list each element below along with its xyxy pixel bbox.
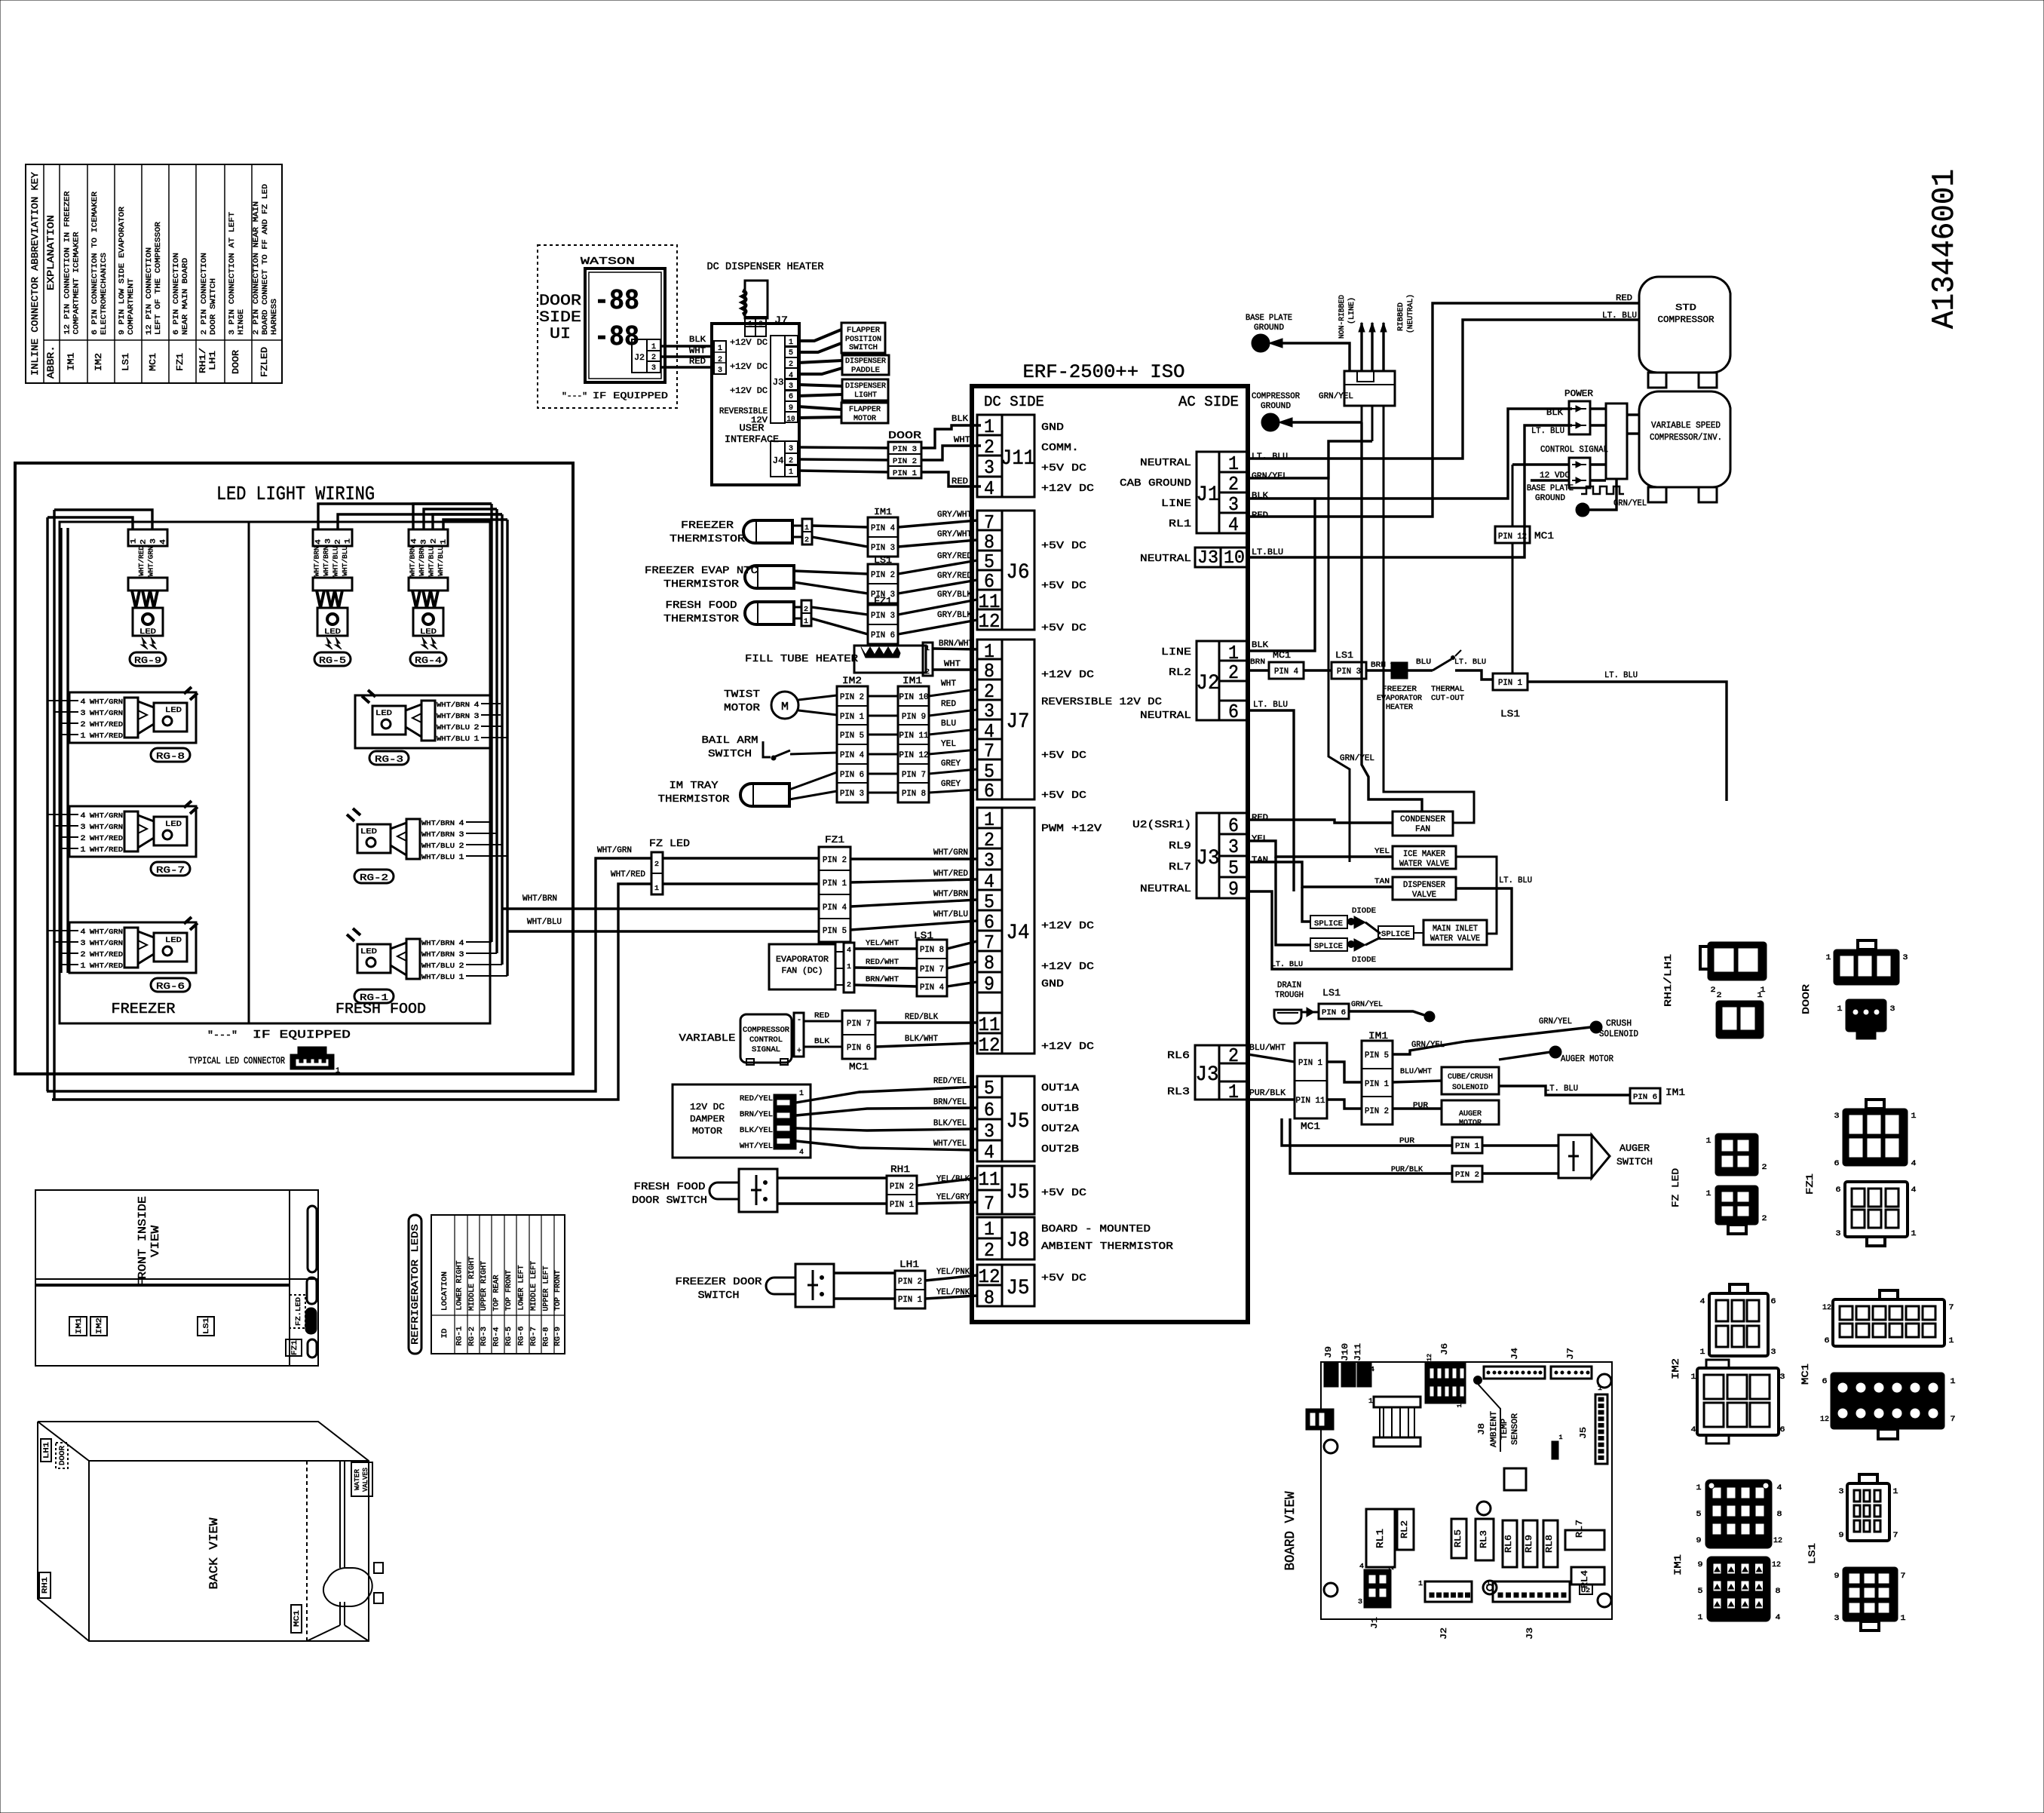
svg-text:IM1: IM1 <box>1672 1554 1684 1575</box>
svg-text:GRY/WHT: GRY/WHT <box>937 511 972 520</box>
svg-text:BACK VIEW: BACK VIEW <box>207 1517 221 1589</box>
wire J2 line BLK <box>1248 498 1315 651</box>
svg-text:RL6: RL6 <box>1503 1535 1514 1553</box>
svg-text:MC1: MC1 <box>1273 650 1291 661</box>
svg-text:SWITCH: SWITCH <box>708 748 752 760</box>
svg-text:BRN/WHT: BRN/WHT <box>866 975 899 984</box>
svg-text:LED LIGHT WIRING: LED LIGHT WIRING <box>216 483 375 505</box>
freezer door switch <box>676 1264 896 1307</box>
svg-text:J11: J11 <box>1354 1343 1363 1361</box>
svg-text:2: 2 <box>459 962 464 971</box>
board screw holes <box>1324 1374 1611 1607</box>
svg-text:WHT/BLU: WHT/BLU <box>427 546 435 576</box>
svg-text:1: 1 <box>799 1090 804 1098</box>
svg-text:PIN 6: PIN 6 <box>1633 1094 1657 1102</box>
inline connector LS1 thermistor pins <box>868 552 977 603</box>
svg-text:12: 12 <box>979 610 1001 633</box>
svg-text:3 PIN CONNECTION AT LEFT: 3 PIN CONNECTION AT LEFT <box>228 212 237 335</box>
svg-text:PIN 5: PIN 5 <box>823 927 847 936</box>
svg-text:WHT/BLU: WHT/BLU <box>421 854 455 861</box>
svg-text:+12V DC: +12V DC <box>730 339 768 348</box>
svg-text:WHT/BLU: WHT/BLU <box>342 546 349 576</box>
svg-text:CONTROL SIGNAL: CONTROL SIGNAL <box>1540 444 1608 455</box>
svg-text:RH1/LH1: RH1/LH1 <box>1662 954 1674 1007</box>
svg-text:RL5: RL5 <box>1453 1529 1463 1548</box>
svg-text:3: 3 <box>789 382 793 391</box>
svg-text:RG-7: RG-7 <box>156 865 185 876</box>
svg-text:M: M <box>781 701 789 713</box>
auger motor terminal <box>1499 1047 1613 1064</box>
svg-text:ID: ID <box>441 1329 449 1339</box>
svg-text:WATER VALVE: WATER VALVE <box>1430 934 1480 943</box>
svg-text:7: 7 <box>1951 1416 1956 1424</box>
wire J2 neutral LT BLU <box>1248 710 1294 891</box>
svg-text:J1: J1 <box>1371 1617 1380 1629</box>
IM tray thermistor <box>658 772 838 806</box>
svg-text:J5: J5 <box>1007 1277 1030 1300</box>
svg-text:1: 1 <box>130 538 139 544</box>
svg-text:PIN 2: PIN 2 <box>1455 1171 1479 1180</box>
LED wiring right bus wires <box>318 504 507 976</box>
UI J2 connector <box>632 339 660 373</box>
IM2 inline connector table <box>837 675 868 802</box>
svg-text:J2: J2 <box>1197 672 1220 695</box>
svg-text:OUT1B: OUT1B <box>1041 1103 1079 1115</box>
gallery LS1 connectors <box>1807 1474 1906 1630</box>
svg-text:PWM +12V: PWM +12V <box>1041 823 1102 835</box>
svg-text:FILL TUBE HEATER: FILL TUBE HEATER <box>745 653 859 665</box>
back view 3d box <box>38 1422 383 1641</box>
svg-text:FLAPPER: FLAPPER <box>847 327 880 335</box>
svg-text:GREY: GREY <box>941 759 961 768</box>
svg-text:GRY/BLK: GRY/BLK <box>937 591 972 600</box>
svg-text:BLK: BLK <box>1546 409 1563 418</box>
svg-text:SPLICE: SPLICE <box>1314 943 1343 951</box>
svg-text:+12V DC: +12V DC <box>730 387 768 396</box>
svg-text:7: 7 <box>1949 1304 1954 1312</box>
svg-text:BLK/WHT: BLK/WHT <box>905 1035 938 1044</box>
svg-text:5: 5 <box>1696 1511 1702 1519</box>
gallery FZ LED connectors <box>1670 1134 1767 1234</box>
svg-text:4: 4 <box>474 701 480 710</box>
svg-text:+5V DC: +5V DC <box>1041 462 1086 474</box>
svg-text:J5: J5 <box>1580 1427 1589 1439</box>
board connector J5 <box>1580 1385 1607 1464</box>
svg-text:FZ1: FZ1 <box>1804 1173 1816 1195</box>
svg-text:2: 2 <box>81 835 86 843</box>
svg-text:2: 2 <box>925 668 930 676</box>
svg-text:PIN 5: PIN 5 <box>1365 1051 1389 1060</box>
board relays <box>1366 1509 1604 1594</box>
svg-text:4: 4 <box>1370 1366 1374 1373</box>
svg-text:CUT-OUT: CUT-OUT <box>1431 695 1464 703</box>
svg-text:DOOR: DOOR <box>1800 984 1812 1014</box>
12V DC damper motor <box>673 1084 811 1158</box>
svg-text:LED: LED <box>360 948 377 956</box>
svg-text:FREEZER: FREEZER <box>681 520 734 532</box>
svg-text:IF EQUIPPED: IF EQUIPPED <box>593 391 668 401</box>
svg-text:LT. BLU: LT. BLU <box>1454 658 1486 667</box>
front inside view box <box>35 1190 318 1366</box>
svg-text:12V: 12V <box>751 416 768 425</box>
svg-text:MOTOR: MOTOR <box>1459 1119 1482 1127</box>
svg-text:HINGE: HINGE <box>237 309 246 335</box>
svg-text:DOOR: DOOR <box>888 430 922 442</box>
svg-text:+12V DC: +12V DC <box>730 363 768 372</box>
board connectors J9 J10 J11 <box>1324 1343 1374 1405</box>
svg-text:2: 2 <box>1717 992 1722 1000</box>
svg-text:WHT/BRN: WHT/BRN <box>409 546 416 576</box>
svg-text:VARIABLE SPEED: VARIABLE SPEED <box>1651 420 1721 431</box>
svg-text:1: 1 <box>1700 1348 1705 1357</box>
connector J8 <box>977 1217 1174 1262</box>
svg-text:RH1/: RH1/ <box>199 348 208 373</box>
svg-text:PIN 3: PIN 3 <box>893 446 917 454</box>
svg-text:WHT/RED: WHT/RED <box>611 870 645 879</box>
svg-text:RG-5: RG-5 <box>505 1327 513 1346</box>
svg-text:GROUND: GROUND <box>1535 494 1565 503</box>
svg-text:4: 4 <box>984 477 994 500</box>
base plate ground top-left <box>1246 314 1350 371</box>
svg-text:10: 10 <box>787 416 795 424</box>
svg-text:WHT/GRN: WHT/GRN <box>90 698 123 706</box>
svg-text:2: 2 <box>847 981 851 989</box>
typical LED connector icon <box>188 1047 340 1075</box>
svg-text:5: 5 <box>1698 1588 1703 1596</box>
svg-text:RH1: RH1 <box>890 1164 910 1175</box>
svg-text:CAB GROUND: CAB GROUND <box>1120 477 1191 489</box>
svg-text:VALVES: VALVES <box>362 1468 369 1492</box>
freezer thermistor <box>670 519 868 547</box>
svg-text:4: 4 <box>1776 1614 1781 1622</box>
svg-text:PIN 2: PIN 2 <box>871 571 895 580</box>
svg-text:PIN 2: PIN 2 <box>840 693 864 702</box>
WATSON door-side UI dashed box <box>538 245 677 408</box>
svg-text:4: 4 <box>1911 1186 1917 1195</box>
inverter control signal connector <box>1512 444 1624 494</box>
svg-text:YEL: YEL <box>1374 848 1390 856</box>
inline connector LH1 door switch pins <box>895 1259 977 1308</box>
svg-text:COMPRESSOR: COMPRESSOR <box>1252 392 1300 401</box>
svg-text:EXPLANATION: EXPLANATION <box>45 215 57 290</box>
svg-text:WHT/RED: WHT/RED <box>138 546 146 576</box>
svg-text:LEFT OF THE COMPRESSOR: LEFT OF THE COMPRESSOR <box>154 221 163 335</box>
svg-text:RL6: RL6 <box>1167 1050 1190 1062</box>
svg-text:MAIN INLET: MAIN INLET <box>1433 925 1478 934</box>
wires IM2-IM1-J7 <box>868 679 977 793</box>
drain trough heater <box>1274 981 1434 1023</box>
svg-text:WHT/BLU: WHT/BLU <box>933 910 968 919</box>
svg-text:BOARD VIEW: BOARD VIEW <box>1283 1491 1298 1570</box>
power cord labels <box>1338 294 1415 339</box>
svg-text:1: 1 <box>1598 1385 1602 1392</box>
board heatsink assembly <box>1374 1397 1420 1446</box>
svg-text:J7: J7 <box>1567 1348 1576 1360</box>
svg-text:2: 2 <box>654 860 659 868</box>
svg-text:J5: J5 <box>1007 1110 1030 1134</box>
svg-text:6: 6 <box>1836 1186 1841 1195</box>
svg-text:+5V DC: +5V DC <box>1041 790 1086 802</box>
dispenser valve <box>1248 862 1532 900</box>
svg-text:6: 6 <box>1825 1337 1830 1345</box>
svg-text:PUR: PUR <box>1399 1137 1414 1146</box>
svg-text:WHT/BLU: WHT/BLU <box>437 735 470 743</box>
svg-text:LS1: LS1 <box>203 1318 211 1334</box>
svg-text:WHT/BRN: WHT/BRN <box>437 713 470 720</box>
svg-text:9: 9 <box>1698 1561 1703 1569</box>
svg-text:3: 3 <box>421 539 429 545</box>
svg-text:+12V DC: +12V DC <box>1041 961 1094 973</box>
svg-text:FZ1: FZ1 <box>825 834 844 845</box>
LED wiring inner box freezer/fresh-food <box>60 522 490 1023</box>
svg-text:2: 2 <box>759 321 763 327</box>
board connector J3 <box>1486 1580 1570 1640</box>
svg-text:PIN 2: PIN 2 <box>893 458 917 466</box>
svg-text:LT. BLU: LT. BLU <box>1252 452 1288 462</box>
svg-text:BRN/WHT: BRN/WHT <box>939 640 973 649</box>
svg-text:10: 10 <box>1224 548 1245 569</box>
svg-text:BRN/YEL: BRN/YEL <box>933 1098 967 1107</box>
LED module RG-5 <box>313 529 353 666</box>
svg-text:RL9: RL9 <box>1169 840 1191 852</box>
svg-text:SPLICE: SPLICE <box>1381 931 1410 939</box>
svg-text:WHT/BRN: WHT/BRN <box>313 546 320 576</box>
svg-text:1: 1 <box>1696 1484 1702 1492</box>
svg-text:RL3: RL3 <box>1167 1086 1190 1098</box>
svg-text:RG-5: RG-5 <box>319 655 346 666</box>
svg-text:SPLICE: SPLICE <box>1314 920 1343 928</box>
svg-text:GRY/WHT: GRY/WHT <box>937 530 972 539</box>
svg-text:8: 8 <box>984 1287 994 1309</box>
gallery IM2 connectors <box>1670 1284 1785 1443</box>
auger switch chain <box>1282 1118 1653 1182</box>
svg-text:J2: J2 <box>634 354 645 363</box>
svg-text:3: 3 <box>1836 1230 1841 1238</box>
svg-text:RG-3: RG-3 <box>375 754 403 765</box>
svg-text:CRUSH: CRUSH <box>1606 1018 1632 1029</box>
svg-text:GRY/BLK: GRY/BLK <box>937 611 972 620</box>
svg-text:GRN/YEL: GRN/YEL <box>1319 392 1353 401</box>
svg-text:TEMP: TEMP <box>1500 1419 1509 1440</box>
svg-text:J10: J10 <box>1341 1343 1350 1361</box>
svg-text:WATSON: WATSON <box>581 256 635 268</box>
svg-text:WHT/BRN: WHT/BRN <box>421 951 455 959</box>
svg-text:LED: LED <box>165 937 182 945</box>
svg-text:GREY: GREY <box>941 780 961 789</box>
svg-text:RG-4: RG-4 <box>415 655 442 666</box>
svg-text:1: 1 <box>81 846 86 854</box>
svg-text:RED: RED <box>689 357 706 367</box>
svg-text:9: 9 <box>1834 1572 1840 1581</box>
svg-text:3: 3 <box>1839 1488 1844 1496</box>
user interface box <box>712 324 799 485</box>
svg-text:4: 4 <box>160 539 168 545</box>
svg-text:2: 2 <box>1388 1566 1396 1570</box>
power cord wires <box>1359 323 1387 371</box>
variable speed compressor <box>1639 391 1730 502</box>
svg-text:COMM.: COMM. <box>1041 442 1079 454</box>
svg-text:LED: LED <box>360 828 377 836</box>
svg-text:OUT2A: OUT2A <box>1041 1123 1080 1135</box>
svg-text:LED: LED <box>375 710 392 718</box>
svg-text:BRN: BRN <box>1250 658 1265 667</box>
svg-text:J6: J6 <box>1441 1343 1450 1355</box>
svg-text:WHT/RED: WHT/RED <box>90 951 123 959</box>
svg-text:FRESH FOOD: FRESH FOOD <box>666 600 737 612</box>
svg-text:+12V DC: +12V DC <box>1041 483 1094 495</box>
svg-text:MOTOR: MOTOR <box>853 415 876 423</box>
svg-text:1: 1 <box>749 321 752 327</box>
svg-text:2: 2 <box>1711 986 1716 995</box>
svg-text:WHT/BRN: WHT/BRN <box>421 940 455 947</box>
MC1 inline connector auger <box>1248 1043 1362 1132</box>
svg-text:1: 1 <box>789 468 793 477</box>
svg-text:BOARD - MOUNTED: BOARD - MOUNTED <box>1041 1223 1151 1235</box>
svg-text:RG-8: RG-8 <box>156 751 185 762</box>
svg-text:FREEZER: FREEZER <box>1382 686 1417 694</box>
svg-text:PIN 6: PIN 6 <box>1322 1009 1346 1017</box>
svg-text:6 PIN CONNECTION TO ICEMAKER: 6 PIN CONNECTION TO ICEMAKER <box>90 191 100 335</box>
svg-text:2: 2 <box>651 354 656 362</box>
evaporator fan <box>769 930 977 996</box>
svg-text:BLK/YEL: BLK/YEL <box>933 1119 967 1128</box>
DC dispenser heater <box>707 261 825 336</box>
IM1 inline connector auger <box>1362 1030 1465 1124</box>
svg-text:WHT/YEL: WHT/YEL <box>740 1142 773 1151</box>
svg-text:2: 2 <box>984 1239 994 1262</box>
svg-text:LT. BLU: LT. BLU <box>1253 701 1288 710</box>
svg-text:OUT1A: OUT1A <box>1041 1082 1080 1094</box>
svg-text:WHT/RED: WHT/RED <box>90 732 123 740</box>
svg-text:IM1: IM1 <box>66 353 77 371</box>
svg-text:DISPENSER: DISPENSER <box>845 357 886 366</box>
svg-text:3: 3 <box>718 367 722 375</box>
svg-text:BLU: BLU <box>941 719 956 729</box>
svg-text:GND: GND <box>1041 978 1064 990</box>
svg-text:1: 1 <box>336 1067 340 1075</box>
svg-text:WHT/BLU: WHT/BLU <box>421 974 455 981</box>
svg-text:FZ.LED: FZ.LED <box>295 1297 302 1326</box>
svg-text:PUR: PUR <box>1413 1102 1428 1110</box>
svg-text:1: 1 <box>1706 1137 1712 1146</box>
svg-text:RED/YEL: RED/YEL <box>933 1077 967 1086</box>
svg-text:2: 2 <box>1762 1215 1767 1223</box>
svg-text:4: 4 <box>984 1141 994 1164</box>
svg-text:SWITCH: SWITCH <box>849 344 878 352</box>
svg-text:RG-1: RG-1 <box>456 1327 464 1346</box>
svg-text:2: 2 <box>1762 1164 1767 1172</box>
svg-text:THERMISTOR: THERMISTOR <box>663 578 740 591</box>
UI input connector 1-2-3 <box>714 341 726 375</box>
svg-text:IF EQUIPPED: IF EQUIPPED <box>253 1029 351 1041</box>
svg-text:RED: RED <box>952 477 968 486</box>
svg-text:4: 4 <box>1691 1426 1696 1434</box>
UI display box <box>539 268 665 382</box>
svg-text:SWITCH: SWITCH <box>1617 1156 1653 1167</box>
svg-text:LS1: LS1 <box>1335 650 1353 661</box>
svg-text:FZ1: FZ1 <box>175 353 185 371</box>
svg-text:WHT: WHT <box>944 660 961 669</box>
svg-text:2: 2 <box>431 538 439 544</box>
svg-text:NON-RIBBED: NON-RIBBED <box>1338 295 1347 339</box>
svg-text:DOOR SWITCH: DOOR SWITCH <box>209 278 218 335</box>
svg-text:AMBIENT THERMISTOR: AMBIENT THERMISTOR <box>1041 1241 1174 1253</box>
condenser fan <box>1248 422 1474 836</box>
svg-text:LED: LED <box>420 628 437 637</box>
svg-text:+12V DC: +12V DC <box>1041 920 1094 932</box>
svg-text:6: 6 <box>984 780 994 802</box>
svg-text:1: 1 <box>1893 1488 1898 1496</box>
svg-text:BLK: BLK <box>814 1038 829 1046</box>
svg-text:3: 3 <box>789 445 793 453</box>
LED module RG-4 <box>409 529 449 666</box>
svg-text:J5: J5 <box>1007 1181 1030 1204</box>
svg-text:(LINE): (LINE) <box>1347 297 1356 324</box>
svg-text:IM2: IM2 <box>96 1318 104 1334</box>
svg-text:J3: J3 <box>773 377 784 388</box>
svg-text:SIDE: SIDE <box>539 309 581 327</box>
svg-text:RG-2: RG-2 <box>468 1327 477 1346</box>
svg-text:LS1: LS1 <box>1322 987 1341 999</box>
gallery FZ1 connectors <box>1804 1100 1917 1246</box>
crush solenoid <box>1465 1017 1638 1041</box>
svg-text:GRN/YEL: GRN/YEL <box>1613 499 1647 508</box>
svg-text:8: 8 <box>1777 1511 1782 1519</box>
svg-text:DC DISPENSER HEATER: DC DISPENSER HEATER <box>707 261 825 273</box>
svg-text:NEUTRAL: NEUTRAL <box>1140 883 1191 895</box>
svg-text:FREEZER DOOR: FREEZER DOOR <box>676 1276 763 1288</box>
svg-text:PIN 2: PIN 2 <box>890 1183 914 1192</box>
svg-text:THERMISTOR: THERMISTOR <box>663 613 740 625</box>
inline connector abbreviation key table <box>26 164 282 383</box>
svg-text:2 PIN CONNECTION NEAR MAIN: 2 PIN CONNECTION NEAR MAIN <box>252 201 261 335</box>
svg-text:RED: RED <box>1616 294 1632 303</box>
svg-text:7: 7 <box>1893 1532 1898 1540</box>
svg-text:WHT: WHT <box>941 679 956 689</box>
svg-text:4: 4 <box>315 539 323 545</box>
svg-text:4: 4 <box>81 812 86 821</box>
svg-text:3: 3 <box>1903 954 1908 962</box>
svg-text:PIN 11: PIN 11 <box>899 732 929 741</box>
svg-text:RED/BLK: RED/BLK <box>905 1013 938 1022</box>
svg-text:LH1: LH1 <box>43 1442 51 1459</box>
svg-text:2: 2 <box>81 951 86 959</box>
compressor ground symbol top <box>1252 392 1312 431</box>
flapper motor box <box>841 403 888 423</box>
if-equipped note <box>207 1029 351 1041</box>
connector J3 auger <box>1167 1044 1286 1103</box>
svg-text:1: 1 <box>789 339 793 347</box>
svg-text:A13446001: A13446001 <box>1926 169 1963 329</box>
svg-text:1: 1 <box>1418 1580 1423 1588</box>
svg-text:4: 4 <box>1359 1563 1364 1570</box>
power plug box <box>1344 371 1395 460</box>
svg-text:3: 3 <box>459 831 464 839</box>
board connector J7 <box>1551 1348 1592 1379</box>
svg-text:RED: RED <box>1252 814 1268 823</box>
svg-text:MC1: MC1 <box>293 1610 302 1627</box>
twist motor <box>724 689 837 719</box>
LED module RG-9 <box>128 529 168 666</box>
svg-text:BLU/WHT: BLU/WHT <box>1249 1044 1286 1053</box>
svg-text:IM2: IM2 <box>1670 1358 1681 1379</box>
svg-text:RG-4: RG-4 <box>493 1327 501 1347</box>
front view door pills <box>305 1206 317 1357</box>
splice and diode network <box>1248 857 1512 969</box>
UI J3 connector to flappers <box>719 336 798 425</box>
svg-text:RL1: RL1 <box>1169 518 1191 530</box>
svg-text:SOLENOID: SOLENOID <box>1599 1029 1638 1039</box>
